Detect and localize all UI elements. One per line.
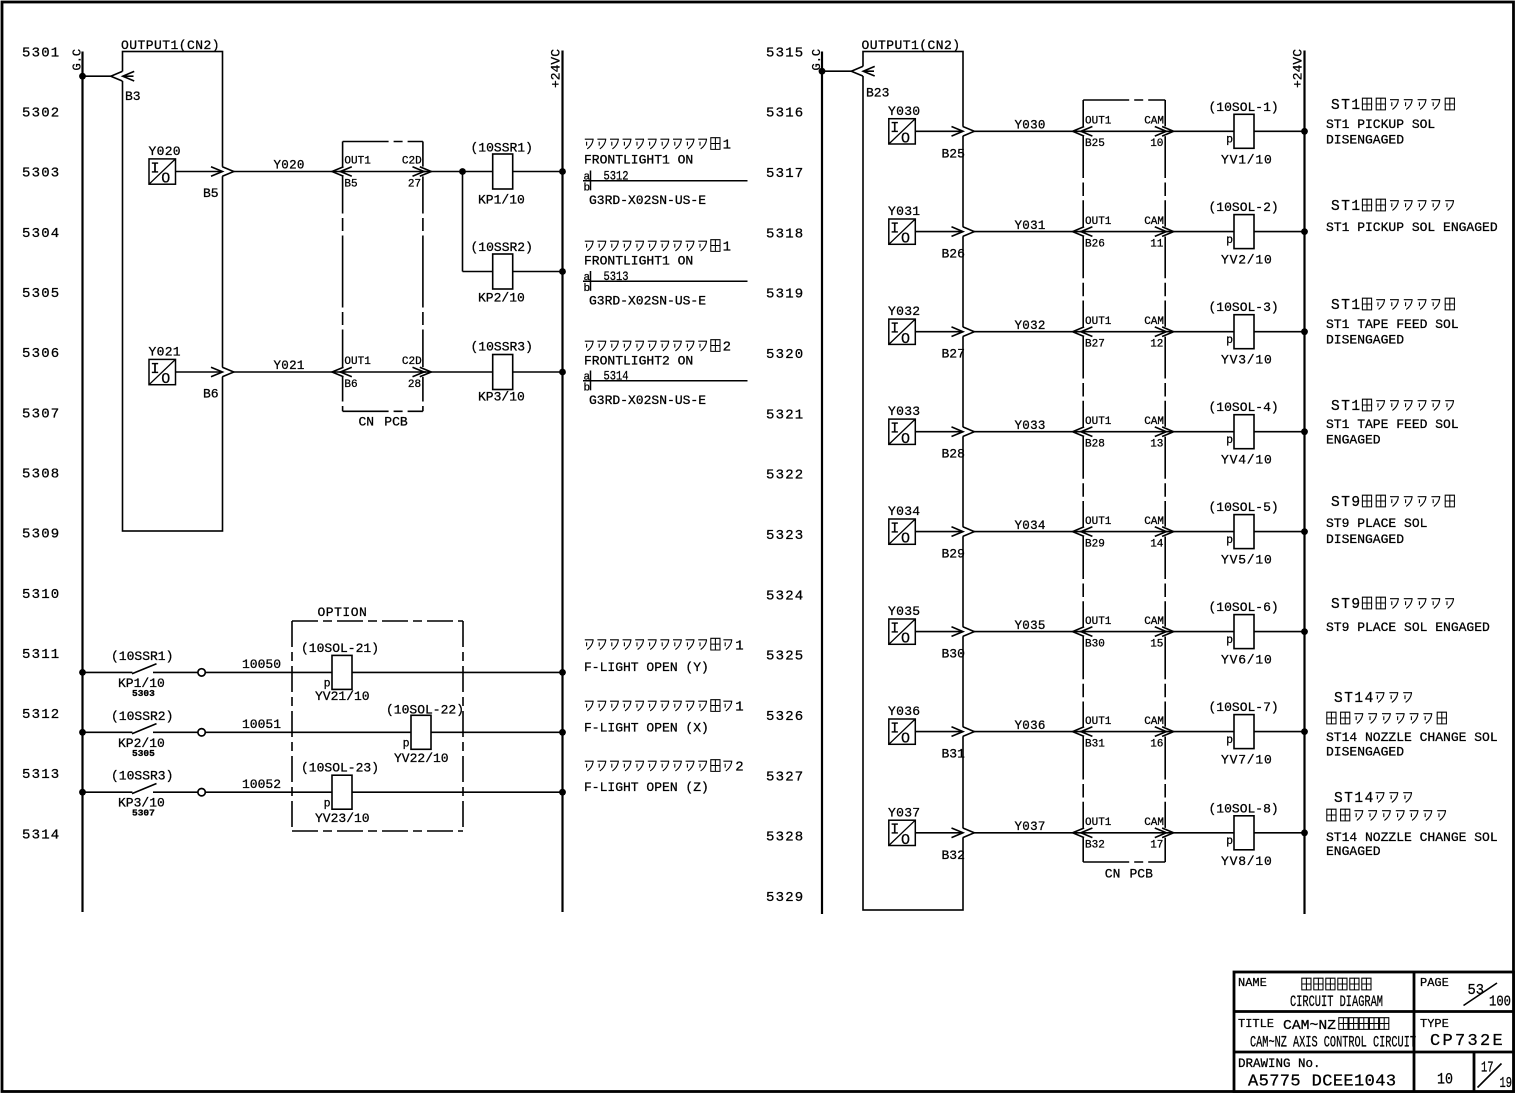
wire to contact KP2/10	[83, 731, 133, 733]
svg-text:Y021: Y021	[149, 345, 181, 360]
svg-text:5325: 5325	[766, 649, 804, 665]
svg-text:(10SOL-2): (10SOL-2)	[1209, 200, 1279, 215]
svg-text:F-LIGHT OPEN (X): F-LIGHT OPEN (X)	[584, 721, 709, 736]
I/O driver Y033	[889, 419, 916, 448]
junction on +24VC rail at YV21/10	[559, 669, 566, 676]
svg-text:O: O	[901, 631, 910, 648]
svg-text:p: p	[1226, 134, 1233, 147]
wire 10050 to +24VC rail	[205, 671, 562, 673]
svg-text:OUT1: OUT1	[344, 356, 371, 368]
wire Y020 to CN PCB and +24VC rail	[176, 171, 563, 173]
svg-text:OPTION: OPTION	[318, 605, 368, 620]
wire contact to node 10052	[153, 791, 198, 793]
svg-text:ST1: ST1	[1331, 199, 1362, 215]
CN PCB edge arrows OUT1/B31	[1082, 727, 1084, 737]
svg-text:11: 11	[1150, 238, 1164, 250]
title block row divider 1	[1234, 1010, 1514, 1013]
svg-text:PAGE: PAGE	[1420, 976, 1449, 990]
I/O driver Y037	[889, 820, 916, 849]
svg-text:CAM~NZ: CAM~NZ	[1283, 1018, 1336, 1034]
svg-text:YV5/10: YV5/10	[1221, 553, 1273, 568]
svg-text:p: p	[1226, 634, 1233, 647]
svg-text:B30: B30	[1085, 638, 1105, 650]
CN PCB edge arrows OUT1/B32	[1082, 828, 1084, 838]
annotation japanese	[1331, 495, 1454, 511]
svg-text:CAM: CAM	[1144, 516, 1164, 528]
solenoid coil YV7/10 (10SOL-7)	[1234, 715, 1254, 749]
svg-text:Y030: Y030	[1015, 119, 1046, 133]
svg-text:5303: 5303	[22, 166, 60, 182]
svg-text:O: O	[161, 171, 170, 188]
CN PCB edge arrows CAM/11	[1164, 227, 1166, 237]
svg-text:(10SSR2): (10SSR2)	[471, 240, 533, 255]
connector arrow B28	[952, 427, 964, 437]
junction on G.C rail (right)	[819, 68, 826, 75]
wire Y036 to +24VC rail	[915, 731, 1304, 733]
svg-text:10052: 10052	[242, 777, 281, 792]
G.C rail (left)	[81, 52, 83, 913]
svg-text:OUT1: OUT1	[1085, 516, 1112, 528]
svg-text:DISENGAGED: DISENGAGED	[1326, 133, 1404, 148]
svg-text:10051: 10051	[242, 717, 281, 732]
svg-text:CAM: CAM	[1144, 116, 1164, 128]
svg-text:KP3/10: KP3/10	[478, 389, 525, 404]
CN PCB edge arrows OUT1/B26	[1082, 227, 1084, 237]
svg-text:Y032: Y032	[1015, 319, 1046, 333]
I/O driver Y030	[889, 119, 916, 148]
svg-text:DRAWING No.: DRAWING No.	[1238, 1057, 1321, 1071]
solenoid coil YV22/10 (10SOL-22)	[411, 715, 431, 749]
svg-text:CN: CN	[1105, 867, 1121, 882]
connector arrow B29	[952, 527, 964, 537]
svg-text:5311: 5311	[22, 647, 60, 663]
wire 10052 to +24VC rail	[205, 791, 562, 793]
CN PCB box (right)	[1083, 100, 1165, 862]
svg-text:B6: B6	[344, 379, 357, 391]
+24VC rail (left)	[561, 51, 563, 913]
annotation japanese	[585, 340, 731, 356]
svg-text:ST9: ST9	[1331, 597, 1362, 613]
svg-text:I: I	[150, 361, 159, 378]
svg-text:B29: B29	[1085, 538, 1105, 550]
svg-text:I: I	[890, 621, 899, 638]
svg-text:13: 13	[1150, 439, 1163, 451]
svg-text:Y021: Y021	[274, 359, 305, 373]
svg-text:+24VC: +24VC	[1291, 49, 1306, 88]
svg-text:B28: B28	[942, 447, 965, 462]
svg-text:I: I	[150, 160, 159, 177]
annotation japanese	[1327, 712, 1447, 724]
title block row divider 2	[1234, 1051, 1514, 1054]
wire Y021 to CN PCB and +24VC rail	[176, 371, 563, 373]
CN PCB edge arrows OUT1/B25	[1082, 126, 1084, 136]
svg-text:NAME: NAME	[1238, 976, 1267, 990]
svg-text:Y036: Y036	[888, 704, 920, 719]
svg-text:ST14: ST14	[1334, 791, 1375, 807]
svg-text:O: O	[901, 431, 910, 448]
connector arrow B25	[952, 127, 964, 137]
contact KP2/10 (10SSR2)	[132, 724, 157, 734]
page fraction slash	[1464, 983, 1498, 1006]
svg-text:F-LIGHT OPEN (Z): F-LIGHT OPEN (Z)	[584, 780, 709, 795]
svg-text:OUT1: OUT1	[1085, 616, 1112, 628]
CN PCB edge arrows CAM/15	[1164, 627, 1166, 637]
CN PCB edge arrows CAM/17	[1164, 828, 1166, 838]
svg-text:ST1 PICKUP SOL: ST1 PICKUP SOL	[1326, 117, 1435, 132]
svg-text:p: p	[1226, 734, 1233, 747]
svg-text:10: 10	[1437, 1071, 1453, 1089]
svg-text:F-LIGHT OPEN (Y): F-LIGHT OPEN (Y)	[584, 660, 709, 675]
I/O driver Y035	[889, 619, 916, 648]
svg-text:KP1/10: KP1/10	[478, 192, 525, 207]
svg-text:10050: 10050	[242, 657, 281, 672]
svg-text:B5: B5	[203, 186, 219, 201]
svg-text:OUT1: OUT1	[1085, 116, 1112, 128]
solenoid coil YV1/10 (10SOL-1)	[1234, 114, 1254, 148]
svg-text:I: I	[890, 721, 899, 738]
G.C rail (right)	[821, 52, 823, 915]
CN PCB edge arrows CAM/10	[1164, 126, 1166, 136]
CN PCB edge arrows OUT1/B6	[341, 367, 343, 377]
svg-text:19: 19	[1500, 1076, 1513, 1092]
connector arrow B27	[952, 327, 964, 337]
wire to contact KP3/10	[83, 791, 133, 793]
svg-text:O: O	[901, 832, 910, 849]
svg-text:Y034: Y034	[1015, 519, 1046, 533]
svg-text:(10SOL-4): (10SOL-4)	[1209, 400, 1279, 415]
svg-text:G3RD-X02SN-US-E: G3RD-X02SN-US-E	[589, 294, 706, 309]
svg-text:CAM: CAM	[1144, 216, 1164, 228]
svg-text:ST9 PLACE SOL: ST9 PLACE SOL	[1326, 516, 1427, 531]
svg-text:5307: 5307	[22, 406, 60, 422]
wire Y035 to +24VC rail	[915, 631, 1304, 633]
svg-text:G3RD-X02SN-US-E: G3RD-X02SN-US-E	[589, 393, 706, 408]
svg-text:17: 17	[1150, 840, 1163, 852]
svg-text:B27: B27	[1085, 339, 1105, 351]
solenoid coil YV3/10 (10SOL-3)	[1234, 315, 1254, 349]
svg-text:TYPE: TYPE	[1420, 1017, 1449, 1031]
svg-text:Y036: Y036	[1015, 719, 1046, 733]
svg-text:YV2/10: YV2/10	[1221, 253, 1273, 268]
svg-text:O: O	[901, 231, 910, 248]
svg-text:PCB: PCB	[1130, 867, 1154, 882]
connector arrow B3	[111, 71, 123, 81]
svg-text:CAM: CAM	[1144, 316, 1164, 328]
wire Y033 to +24VC rail	[915, 431, 1304, 433]
svg-text:DISENGAGED: DISENGAGED	[1326, 333, 1404, 348]
svg-text:B31: B31	[1085, 738, 1105, 750]
svg-text:10: 10	[1150, 138, 1163, 150]
I/O driver Y031	[889, 219, 916, 248]
terminal separator line	[583, 380, 748, 382]
solenoid coil YV21/10 (10SOL-21)	[332, 655, 352, 689]
svg-text:ST1: ST1	[1331, 98, 1362, 114]
CN PCB edge arrows OUT1/B28	[1082, 427, 1084, 437]
junction on +24VC rail at YV2/10	[1301, 228, 1308, 235]
svg-text:B32: B32	[1085, 840, 1105, 852]
svg-text:p: p	[1226, 334, 1233, 347]
svg-text:Y034: Y034	[888, 504, 920, 519]
wire G.C to connector pin B3	[83, 75, 134, 77]
svg-text:CAM~NZ AXIS CONTROL CIRCUIT: CAM~NZ AXIS CONTROL CIRCUIT	[1250, 1034, 1416, 1052]
svg-text:ST14: ST14	[1334, 691, 1375, 707]
svg-text:Y032: Y032	[888, 304, 920, 319]
svg-text:5310: 5310	[22, 587, 60, 603]
contact KP3/10 (10SSR3)	[132, 784, 157, 794]
svg-text:I: I	[890, 521, 899, 538]
svg-text:5326: 5326	[766, 709, 804, 725]
svg-text:(10SOL-8): (10SOL-8)	[1209, 801, 1279, 816]
svg-text:(10SOL-3): (10SOL-3)	[1209, 300, 1279, 315]
svg-text:ST9 PLACE SOL ENGAGED: ST9 PLACE SOL ENGAGED	[1326, 620, 1490, 635]
CN PCB edge arrows OUT1/B27	[1082, 327, 1084, 337]
svg-text:(10SOL-6): (10SOL-6)	[1209, 600, 1279, 615]
svg-text:B26: B26	[1085, 238, 1105, 250]
svg-text:KP2/10: KP2/10	[478, 291, 525, 306]
title block page cell divider	[1473, 1052, 1476, 1092]
I/O driver Y036	[889, 719, 916, 748]
svg-text:ST1 TAPE FEED SOL: ST1 TAPE FEED SOL	[1326, 317, 1459, 332]
svg-text:CN: CN	[359, 414, 375, 429]
svg-text:(10SOL-7): (10SOL-7)	[1209, 700, 1279, 715]
wire contact to node 10050	[153, 671, 198, 673]
svg-text:O: O	[901, 331, 910, 348]
svg-text:I: I	[890, 822, 899, 839]
svg-text:ENGAGED: ENGAGED	[1326, 844, 1381, 859]
svg-text:O: O	[901, 731, 910, 748]
connector arrow B32	[952, 828, 964, 838]
svg-text:5327: 5327	[766, 769, 804, 785]
svg-text:C2D: C2D	[402, 156, 422, 168]
svg-text:27: 27	[408, 178, 421, 190]
svg-text:FRONTLIGHT2 ON: FRONTLIGHT2 ON	[584, 354, 693, 369]
svg-text:(10SOL-1): (10SOL-1)	[1209, 100, 1279, 115]
svg-text:2: 2	[735, 760, 743, 776]
+24VC rail (right)	[1303, 51, 1305, 915]
wire 10051 to +24VC rail	[205, 731, 562, 733]
wire Y031 to +24VC rail	[915, 231, 1304, 233]
svg-text:YV6/10: YV6/10	[1221, 653, 1273, 668]
wire Y037 to +24VC rail	[915, 832, 1304, 834]
junction on +24VC rail at YV6/10	[1301, 628, 1308, 635]
svg-text:Y030: Y030	[888, 104, 920, 119]
annotation japanese	[585, 138, 731, 154]
CN PCB edge arrows OUT1/B29	[1082, 527, 1084, 537]
connector arrow B30	[952, 627, 964, 637]
svg-text:p: p	[1226, 434, 1233, 447]
svg-text:B23: B23	[866, 86, 889, 101]
wire contact to node 10051	[153, 731, 198, 733]
svg-text:CAM: CAM	[1144, 416, 1164, 428]
CN PCB box (left)	[343, 142, 423, 412]
svg-text:PCB: PCB	[384, 414, 408, 429]
svg-text:YV7/10: YV7/10	[1221, 753, 1273, 768]
svg-text:ST9: ST9	[1331, 495, 1362, 511]
svg-text:5305: 5305	[22, 286, 60, 302]
junction on +24VC rail at YV7/10	[1301, 728, 1308, 735]
svg-text:B30: B30	[942, 647, 965, 662]
I/O driver Y021	[149, 359, 176, 388]
svg-text:5314: 5314	[22, 827, 60, 843]
svg-text:1: 1	[723, 138, 731, 154]
svg-text:TITLE: TITLE	[1238, 1017, 1274, 1031]
junction node row 5303	[459, 168, 466, 175]
CN PCB edge arrows OUT1/B5	[341, 167, 343, 177]
annotation japanese F-LIGHT (Y)	[585, 638, 744, 654]
svg-text:Y033: Y033	[888, 404, 920, 419]
junction on G.C rail KP3/10	[79, 789, 86, 796]
svg-text:OUT1: OUT1	[1085, 216, 1112, 228]
junction on G.C rail (left)	[79, 73, 86, 80]
svg-text:+24VC: +24VC	[549, 49, 564, 88]
svg-text:5319: 5319	[766, 287, 804, 303]
svg-text:O: O	[901, 130, 910, 147]
branch wire down to KP2 row	[462, 172, 464, 272]
svg-text:5324: 5324	[766, 588, 804, 604]
CN PCB edge arrows CAM/13	[1164, 427, 1166, 437]
connector arrow B5	[211, 167, 223, 177]
svg-text:DISENGAGED: DISENGAGED	[1326, 745, 1404, 760]
svg-text:G3RD-X02SN-US-E: G3RD-X02SN-US-E	[589, 193, 706, 208]
svg-text:14: 14	[1150, 538, 1164, 550]
relay coil KP1/10 (10SSR1)	[493, 154, 513, 189]
svg-text:(10SSR1): (10SSR1)	[471, 141, 533, 156]
title japanese CAM-NZ AXIS	[1283, 1018, 1336, 1034]
svg-text:OUT1: OUT1	[1085, 316, 1112, 328]
svg-text:I: I	[890, 421, 899, 438]
svg-text:DISENGAGED: DISENGAGED	[1326, 532, 1404, 547]
contact KP1/10 (10SSR1)	[132, 664, 157, 674]
svg-text:100: 100	[1489, 995, 1511, 1011]
junction on +24VC rail at KP3/10	[559, 369, 566, 376]
svg-text:5320: 5320	[766, 347, 804, 363]
annotation japanese	[1331, 597, 1454, 613]
svg-text:OUT1: OUT1	[1085, 817, 1112, 829]
svg-text:28: 28	[408, 379, 421, 391]
OPTION dashed box	[292, 621, 463, 831]
junction on +24VC rail at KP1/10	[559, 168, 566, 175]
wire KP2 row to +24VC rail	[463, 271, 563, 273]
solenoid coil YV5/10 (10SOL-5)	[1234, 515, 1254, 549]
connector arrow B26	[952, 227, 964, 237]
svg-text:ST1: ST1	[1331, 399, 1362, 415]
svg-text:CAM: CAM	[1144, 616, 1164, 628]
svg-text:B25: B25	[1085, 138, 1105, 150]
I/O driver Y034	[889, 519, 916, 548]
svg-text:O: O	[161, 371, 170, 388]
connector arrow B23	[851, 66, 863, 76]
svg-text:YV4/10: YV4/10	[1221, 453, 1273, 468]
annotation japanese	[1334, 791, 1412, 807]
terminal separator line	[583, 180, 748, 182]
svg-text:YV21/10: YV21/10	[315, 689, 370, 704]
junction on +24VC rail at YV1/10	[1301, 128, 1308, 135]
svg-text:Y035: Y035	[1015, 619, 1046, 633]
solenoid coil YV8/10 (10SOL-8)	[1234, 816, 1254, 850]
svg-text:5316: 5316	[766, 106, 804, 122]
annotation japanese F-LIGHT (X)	[585, 700, 744, 716]
svg-text:5305: 5305	[132, 748, 155, 759]
svg-text:5304: 5304	[22, 226, 60, 242]
svg-text:ST1: ST1	[1331, 298, 1362, 314]
title block outer box	[1234, 972, 1514, 1092]
junction on +24VC rail at YV3/10	[1301, 328, 1308, 335]
junction on +24VC rail at YV4/10	[1301, 428, 1308, 435]
annotation japanese	[1331, 199, 1454, 215]
solenoid coil YV23/10 (10SOL-23)	[332, 775, 352, 809]
svg-text:Y037: Y037	[1015, 820, 1046, 834]
svg-text:5313: 5313	[22, 767, 60, 783]
svg-text:B6: B6	[203, 387, 219, 402]
svg-text:5315: 5315	[766, 45, 804, 61]
terminal separator line	[583, 280, 748, 282]
svg-text:ENGAGED: ENGAGED	[1326, 433, 1381, 448]
annotation japanese	[1331, 98, 1454, 114]
solenoid coil YV6/10 (10SOL-6)	[1234, 615, 1254, 649]
connector OUTPUT1(CN2) box (left)	[123, 52, 223, 532]
node circle 10052	[198, 789, 205, 796]
CN PCB edge arrows C2D/27	[422, 167, 424, 177]
node circle 10050	[198, 669, 205, 676]
connector arrow B6	[211, 367, 223, 377]
svg-text:p: p	[324, 797, 331, 810]
wire Y032 to +24VC rail	[915, 331, 1304, 333]
connector arrow B31	[952, 727, 964, 737]
svg-text:YV8/10: YV8/10	[1221, 854, 1273, 869]
wire to contact KP1/10	[83, 671, 133, 673]
svg-text:p: p	[1226, 234, 1233, 247]
svg-text:CP732E: CP732E	[1430, 1032, 1505, 1051]
svg-text:(10SSR3): (10SSR3)	[471, 340, 533, 355]
svg-text:1: 1	[723, 240, 731, 256]
svg-text:ST14 NOZZLE CHANGE SOL: ST14 NOZZLE CHANGE SOL	[1326, 830, 1498, 845]
relay coil KP2/10 (10SSR2)	[493, 254, 513, 289]
annotation japanese	[1331, 298, 1454, 314]
svg-text:I: I	[890, 321, 899, 338]
svg-text:Y035: Y035	[888, 604, 920, 619]
svg-text:YV23/10: YV23/10	[315, 811, 370, 826]
svg-text:5308: 5308	[22, 466, 60, 482]
junction on +24VC rail at KP2/10	[559, 268, 566, 275]
sheet fraction slash	[1478, 1064, 1502, 1088]
svg-text:p: p	[1226, 835, 1233, 848]
svg-text:5309: 5309	[22, 527, 60, 543]
solenoid coil YV2/10 (10SOL-2)	[1234, 215, 1254, 249]
annotation japanese	[1331, 399, 1454, 415]
CN PCB edge arrows CAM/16	[1164, 727, 1166, 737]
svg-text:C2D: C2D	[402, 356, 422, 368]
junction on +24VC rail at YV22/10	[559, 729, 566, 736]
svg-text:Y020: Y020	[274, 159, 305, 173]
svg-text:5318: 5318	[766, 226, 804, 242]
svg-text:5312: 5312	[22, 707, 60, 723]
svg-text:B27: B27	[942, 347, 965, 362]
wire G.C to connector pin B23	[822, 70, 874, 72]
svg-text:FRONTLIGHT1 ON: FRONTLIGHT1 ON	[584, 153, 693, 168]
svg-text:B3: B3	[125, 89, 141, 104]
title japanese CIRCUIT DIAGRAM	[1302, 978, 1371, 990]
svg-text:OUT1: OUT1	[344, 156, 371, 168]
junction on G.C rail KP2/10	[79, 729, 86, 736]
svg-text:B5: B5	[344, 178, 357, 190]
svg-text:O: O	[901, 531, 910, 548]
title block column divider	[1413, 972, 1416, 1092]
svg-text:p: p	[403, 738, 410, 751]
svg-text:(10SOL-23): (10SOL-23)	[301, 761, 379, 776]
svg-text:I: I	[890, 120, 899, 137]
svg-text:(10SOL-21): (10SOL-21)	[301, 641, 379, 656]
svg-text:5321: 5321	[766, 407, 804, 423]
